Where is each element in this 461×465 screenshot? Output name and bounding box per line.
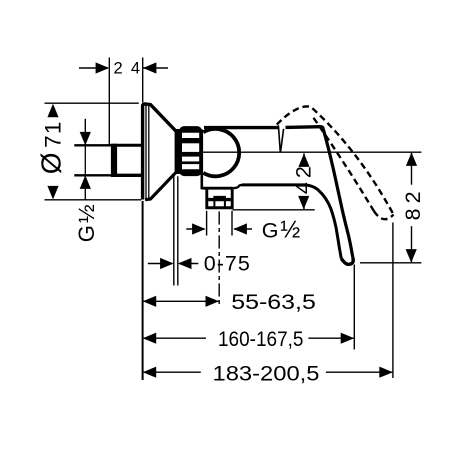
- dim 42: bottom extension line: [233, 209, 315, 211]
- valve body left edge: [201, 130, 204, 190]
- svg-text:183-200,5: 183-200,5: [213, 361, 320, 385]
- svg-text:G½: G½: [262, 217, 300, 244]
- text Ø 71 (rotated): [36, 120, 67, 174]
- body bottom left segment / outlet flange top: [202, 187, 233, 190]
- handle skirt joint wedge: [278, 125, 283, 152]
- svg-text:0-75: 0-75: [204, 252, 250, 276]
- lever outer edge: [323, 129, 353, 258]
- dim 160-167,5: line and arrows: [143, 337, 206, 339]
- wall datum line: [142, 201, 144, 380]
- step from outlet flange up to body bottom right: [233, 185, 243, 188]
- svg-text:Ø71: Ø71: [36, 120, 67, 174]
- svg-text:82: 82: [401, 186, 425, 220]
- outlet union nut: [205, 189, 233, 207]
- svg-text:55-63,5: 55-63,5: [231, 290, 316, 314]
- dim 0-75: dimension line and arrows: [148, 263, 173, 265]
- dim 55-63,5: line and arrows: [143, 300, 218, 302]
- cartridge dome circle: [203, 129, 239, 176]
- dim 183-200,5: line and arrows: [143, 371, 201, 373]
- dim Ø71: arrows: [47, 104, 58, 118]
- svg-text:G½: G½: [74, 204, 99, 242]
- dashed raised lever: rise to peak: [277, 106, 313, 124]
- text 82 (rotated): [401, 186, 425, 220]
- dim 0-75: twin extension lines: [173, 176, 175, 285]
- escutcheon flange: [143, 104, 176, 200]
- text G 1/2 left (rotated): [74, 204, 99, 242]
- lever rounded tip: [341, 258, 353, 265]
- block: eccentric square nut: [111, 144, 143, 177]
- pipe G1/2 wall connection: [74, 145, 142, 175]
- dim 82: extension lines: [360, 262, 421, 264]
- dim 183-200,5: right extension line: [392, 223, 394, 379]
- dim G1/2 left (pipe) arrows and line: [84, 119, 86, 146]
- dim 160-167,5: right extension line: [353, 265, 355, 350]
- dashed raised lever: inner edge: [314, 118, 374, 211]
- handle hub top: [286, 127, 324, 129]
- body bottom right line into lever inner edge: [242, 185, 341, 259]
- wire: centerline axis: [180, 151, 421, 153]
- dashed raised lever: tip arc: [374, 211, 394, 219]
- dim 24: dimension line and arrows: [79, 67, 108, 69]
- dim Ø71: extension lines: [45, 102, 139, 104]
- dim G1/2 bottom: extension lines below nut: [206, 211, 208, 236]
- outlet axis dashed centerline: [218, 212, 220, 307]
- dim 24: extension lines: [108, 58, 110, 147]
- text 42 (rotated): [291, 162, 315, 194]
- body top line: [204, 126, 278, 129]
- junction band between cone and ring: [175, 129, 182, 174]
- svg-text:160-167,5: 160-167,5: [218, 327, 304, 351]
- dim G1/2 bottom: arrows: [186, 228, 204, 230]
- svg-text:42: 42: [291, 162, 315, 194]
- ribbed adjustment ring: [181, 128, 201, 175]
- dim 82: dimension line and arrows: [411, 153, 413, 185]
- dashed raised lever: outer descent: [312, 108, 393, 214]
- dim 42: dimension line: [303, 153, 305, 164]
